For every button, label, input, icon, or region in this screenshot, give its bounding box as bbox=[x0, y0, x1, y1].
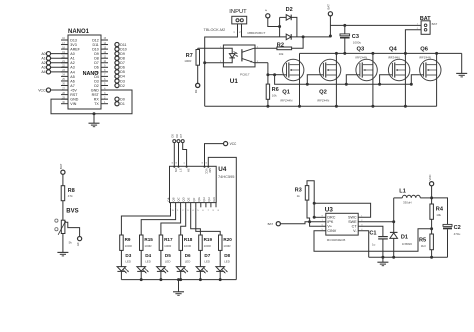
svg-text:R2: R2 bbox=[277, 42, 284, 48]
LED D7 bbox=[199, 250, 201, 266]
NANO1 left pin A3 bbox=[61, 66, 68, 68]
wire Z to D2 bbox=[268, 18, 280, 27]
svg-text:IRFZ44N: IRFZ44N bbox=[388, 55, 400, 59]
wire U4 output bbox=[191, 207, 201, 235]
wire U4 output bbox=[181, 207, 186, 235]
svg-text:QH: QH bbox=[207, 197, 211, 201]
wire U4 output bbox=[196, 207, 220, 235]
NANO1 left pin A0 bbox=[61, 53, 68, 55]
svg-text:D2: D2 bbox=[94, 84, 99, 88]
U4 pin 5 bbox=[195, 203, 197, 208]
inductor L1 330uH bbox=[402, 195, 420, 198]
NANO1 left pin AREF bbox=[61, 48, 68, 50]
svg-text:A4: A4 bbox=[41, 70, 45, 74]
svg-text:SWE: SWE bbox=[348, 220, 357, 224]
svg-text:GND: GND bbox=[70, 98, 78, 102]
resistor R15 100R bbox=[140, 235, 144, 250]
svg-text:LED: LED bbox=[224, 259, 230, 263]
Arduino Nano U-NANO1 bbox=[68, 35, 101, 109]
svg-text:Q1: Q1 bbox=[282, 89, 291, 95]
svg-text:D3: D3 bbox=[120, 79, 125, 83]
svg-text:A2: A2 bbox=[70, 61, 74, 65]
svg-text:ST: ST bbox=[178, 168, 182, 172]
NANO1 right pin D8 bbox=[101, 57, 108, 59]
svg-text:1k: 1k bbox=[297, 194, 301, 198]
wire NANO GND loop bbox=[51, 90, 132, 114]
svg-text:R3: R3 bbox=[295, 188, 302, 194]
resistor R2 10k bbox=[255, 47, 277, 49]
wire R3 top to SWC/DRC bbox=[307, 181, 314, 218]
svg-text:D10: D10 bbox=[92, 48, 99, 52]
NANO1 right pin D2 bbox=[101, 85, 108, 87]
svg-text:VIN: VIN bbox=[70, 102, 76, 106]
NANO1 right pin D12 bbox=[101, 39, 108, 41]
terminal D7 (NANO1 right) bbox=[115, 61, 119, 65]
svg-text:D7: D7 bbox=[179, 134, 183, 138]
svg-text:DS: DS bbox=[174, 168, 178, 172]
U4 pin 8 bbox=[215, 203, 217, 208]
terminal A0 (to NANO1 A0) bbox=[51, 53, 68, 55]
ground LED bbox=[173, 291, 184, 293]
NANO1 right pin D11 bbox=[101, 44, 108, 46]
svg-text:INPUT: INPUT bbox=[229, 9, 247, 15]
resistor R18 100R bbox=[179, 235, 183, 250]
wire to V+ bbox=[310, 222, 326, 227]
wire U4 OE to LED rail bbox=[208, 157, 236, 279]
svg-text:D1: D1 bbox=[401, 234, 408, 240]
wire CINV feedback loop bbox=[314, 229, 432, 252]
NANO1 left pin A2 bbox=[61, 62, 68, 64]
svg-text:5k: 5k bbox=[69, 241, 73, 245]
svg-text:LED: LED bbox=[204, 259, 210, 263]
NANO1 right pin RX bbox=[101, 98, 108, 100]
NANO1 right pin D5 bbox=[101, 71, 108, 73]
NANO1 left pin GND bbox=[61, 98, 68, 100]
svg-text:NANO1: NANO1 bbox=[68, 29, 90, 35]
U4 pin 9 bbox=[210, 203, 212, 208]
NANO1 right pin D9 bbox=[101, 53, 108, 55]
terminal D3 (NANO1 right) bbox=[115, 79, 119, 83]
wire U4 output bbox=[121, 207, 170, 235]
terminal D4 (NANO1 right) bbox=[115, 74, 119, 78]
svg-text:IRFZ44N: IRFZ44N bbox=[355, 55, 367, 59]
svg-text:SH: SH bbox=[186, 168, 190, 172]
svg-text:47k: 47k bbox=[68, 194, 73, 198]
svg-text:D1: D1 bbox=[120, 102, 125, 106]
op-amp U1 PC817 optocoupler bbox=[223, 45, 255, 67]
svg-text:1000u: 1000u bbox=[353, 41, 362, 45]
svg-text:PC817: PC817 bbox=[240, 72, 250, 76]
svg-text:D0: D0 bbox=[120, 97, 125, 101]
svg-text:IRFZ44N: IRFZ44N bbox=[317, 99, 329, 103]
NANO1 left pin D13 bbox=[61, 39, 68, 41]
IC U4 74HC595 bbox=[170, 166, 217, 202]
NANO1 left pin 3V3 bbox=[61, 44, 68, 46]
NANO1 left pin VIN bbox=[61, 103, 68, 105]
svg-text:100R: 100R bbox=[184, 244, 192, 248]
svg-text:LED: LED bbox=[165, 259, 171, 263]
svg-text:100R: 100R bbox=[184, 59, 192, 63]
terminal D0 (NANO1 RX) bbox=[115, 97, 119, 101]
svg-text:74HC595: 74HC595 bbox=[218, 174, 234, 179]
potentiometer BVS 5k bbox=[61, 220, 65, 233]
svg-text:BAT: BAT bbox=[59, 163, 63, 169]
terminal Z bbox=[266, 14, 270, 18]
terminal D3 (opto drive) bbox=[196, 83, 200, 87]
NANO1 left pin A6 bbox=[61, 80, 68, 82]
wire BAT+ rail to BAT1 bbox=[330, 24, 421, 26]
svg-text:LED: LED bbox=[125, 259, 131, 263]
terminal A3 (to NANO1 A3) bbox=[51, 66, 68, 68]
svg-text:A1: A1 bbox=[70, 57, 74, 61]
svg-text:100R: 100R bbox=[125, 244, 133, 248]
svg-text:GND: GND bbox=[91, 88, 99, 92]
U4 pin 15 bbox=[170, 203, 172, 208]
NANO1 right pin RST bbox=[101, 94, 108, 96]
svg-text:D10: D10 bbox=[120, 47, 126, 51]
svg-text:Q3: Q3 bbox=[357, 47, 366, 53]
NANO1 left pin A7 bbox=[61, 85, 68, 87]
terminal D6 (NANO1 right) bbox=[115, 65, 119, 69]
resistor R9 100R bbox=[120, 235, 124, 250]
svg-text:Q4: Q4 bbox=[389, 47, 398, 53]
NANO1 left pin RST bbox=[61, 94, 68, 96]
svg-text:QB: QB bbox=[172, 197, 176, 201]
wire D2 output bbox=[291, 36, 330, 38]
svg-text:A3: A3 bbox=[70, 66, 74, 70]
svg-text:RST: RST bbox=[70, 93, 78, 97]
wire U4 output bbox=[141, 207, 175, 235]
svg-text:VCC: VCC bbox=[428, 174, 432, 180]
wire U1 pin2 to GND bbox=[205, 62, 224, 64]
svg-text:GN: GN bbox=[212, 197, 216, 201]
wire R3 bottom bbox=[307, 200, 310, 222]
capacitor C2 470u bbox=[443, 224, 452, 226]
svg-text:D8: D8 bbox=[224, 253, 230, 258]
svg-text:D8: D8 bbox=[94, 57, 99, 61]
ground BVS bbox=[57, 251, 68, 253]
terminal D11 (NANO1 right) bbox=[115, 42, 119, 46]
svg-text:L1: L1 bbox=[399, 189, 406, 195]
svg-text:MC34063ECB: MC34063ECB bbox=[327, 238, 346, 242]
svg-text:3V3: 3V3 bbox=[70, 43, 76, 47]
resistor R19 100R bbox=[199, 235, 203, 250]
svg-text:SWC: SWC bbox=[348, 216, 357, 220]
svg-text:C2: C2 bbox=[454, 225, 461, 231]
wire VCC to U4 bbox=[205, 144, 224, 167]
svg-text:D8: D8 bbox=[120, 57, 125, 61]
svg-text:D7: D7 bbox=[94, 61, 99, 65]
svg-text:D2: D2 bbox=[286, 7, 293, 13]
capacitor C3 1000u bbox=[343, 24, 346, 27]
capacitor C1 1u bbox=[378, 236, 388, 238]
transistor Q1 IRFZ44N bbox=[283, 59, 304, 80]
svg-text:D3: D3 bbox=[125, 253, 131, 258]
svg-text:D3: D3 bbox=[194, 89, 198, 93]
svg-text:D11: D11 bbox=[120, 43, 126, 47]
svg-text:QA: QA bbox=[167, 197, 171, 201]
terminal D8 (NANO1 right) bbox=[115, 56, 119, 60]
svg-text:IRFZ44N: IRFZ44N bbox=[280, 99, 292, 103]
wire INPUT pin1 to GND rail bbox=[205, 24, 238, 106]
svg-text:R15: R15 bbox=[144, 237, 153, 242]
U4 pin 4 bbox=[190, 203, 192, 208]
svg-text:100R: 100R bbox=[223, 244, 231, 248]
svg-text:RST: RST bbox=[92, 93, 100, 97]
transistor Q3 IRFZ44N bbox=[356, 59, 377, 80]
terminal A4 (to NANO1 A4) bbox=[51, 71, 68, 73]
terminal VCC (to NANO1 +5V) bbox=[51, 89, 68, 91]
svg-text:BAT: BAT bbox=[268, 222, 274, 226]
NANO1 right pin D3 bbox=[101, 80, 108, 82]
svg-text:10k: 10k bbox=[436, 213, 441, 217]
svg-text:IRFZ44N: IRFZ44N bbox=[419, 55, 431, 59]
svg-text:100R: 100R bbox=[204, 244, 212, 248]
wire U4 output bbox=[161, 207, 181, 235]
svg-text:D6: D6 bbox=[185, 253, 191, 258]
LED D5 bbox=[160, 250, 162, 266]
wire LED cathode bbox=[160, 271, 162, 279]
ground (LED rail) bbox=[177, 278, 180, 281]
ground (top right) bbox=[461, 53, 463, 73]
wire gate feed bbox=[345, 83, 348, 86]
svg-text:A4: A4 bbox=[70, 70, 74, 74]
svg-text:LED: LED bbox=[185, 259, 191, 263]
svg-text:D12: D12 bbox=[92, 38, 99, 42]
svg-text:A1: A1 bbox=[41, 57, 45, 61]
svg-text:TX: TX bbox=[94, 102, 99, 106]
svg-text:IPK: IPK bbox=[327, 220, 333, 224]
terminal D10 (NANO1 right) bbox=[115, 47, 119, 51]
svg-text:VCC: VCC bbox=[204, 168, 208, 174]
transistor Q2 IRFZ44N bbox=[319, 59, 340, 80]
svg-text:10k: 10k bbox=[272, 94, 277, 98]
wire U3 ground rail bbox=[369, 256, 448, 258]
wire source rail bbox=[205, 105, 437, 107]
terminal D5 (NANO1 right) bbox=[115, 70, 119, 74]
resistor R3 1k bbox=[305, 186, 309, 201]
svg-text:A0: A0 bbox=[41, 52, 45, 56]
svg-text:D6: D6 bbox=[120, 66, 125, 70]
terminal D2 (NANO1 right) bbox=[115, 83, 119, 87]
svg-text:R4: R4 bbox=[436, 207, 444, 213]
terminal BAT (D2 out) bbox=[329, 16, 331, 37]
terminal D1 (NANO1 TX) bbox=[115, 102, 119, 106]
svg-text:D13: D13 bbox=[70, 38, 77, 42]
svg-text:330uH: 330uH bbox=[403, 200, 412, 204]
wire BVS wiper to A0 terminal bbox=[65, 222, 80, 236]
svg-text:MR: MR bbox=[208, 168, 212, 172]
svg-text:D4: D4 bbox=[145, 253, 151, 258]
terminal A0 (BVS wiper) bbox=[78, 237, 82, 241]
svg-text:C1: C1 bbox=[369, 231, 376, 237]
svg-text:U3: U3 bbox=[325, 207, 334, 214]
svg-text:A0: A0 bbox=[70, 52, 74, 56]
ground symbol NANO bbox=[89, 122, 100, 124]
wire to C2 bbox=[432, 198, 448, 225]
wire V- to ground rail bbox=[358, 231, 369, 258]
svg-text:A0: A0 bbox=[76, 242, 80, 246]
U4 pin 3 bbox=[185, 203, 187, 208]
resistor R7 100R bbox=[198, 47, 224, 49]
svg-text:100R: 100R bbox=[164, 244, 172, 248]
svg-text:TBLOCK-M2: TBLOCK-M2 bbox=[204, 28, 226, 32]
wire INPUT pin2 to D2 anode bbox=[242, 24, 287, 37]
NANO1 left pin A1 bbox=[61, 57, 68, 59]
terminal BAT (BVS top) bbox=[61, 170, 65, 174]
svg-text:R20: R20 bbox=[223, 237, 232, 242]
svg-text:C3: C3 bbox=[352, 34, 359, 40]
transistor Q4 IRFZ44N bbox=[388, 59, 409, 80]
svg-text:Q6: Q6 bbox=[420, 47, 429, 53]
svg-text:AREF: AREF bbox=[70, 48, 80, 52]
svg-text:R18: R18 bbox=[184, 237, 193, 242]
LED D8 bbox=[219, 250, 221, 266]
svg-text:A5: A5 bbox=[70, 75, 74, 79]
diode D1 1N5820 bbox=[390, 231, 398, 233]
wire BAT1 pin2 to drain rail bbox=[405, 30, 421, 54]
IC U3 MC34063 bbox=[326, 213, 358, 235]
svg-text:R9: R9 bbox=[125, 237, 131, 242]
terminal A1 (to NANO1 A1) bbox=[51, 57, 68, 59]
resistor R6 10k bbox=[267, 63, 269, 84]
svg-text:R17: R17 bbox=[164, 237, 173, 242]
svg-text:1N5820: 1N5820 bbox=[402, 242, 413, 246]
svg-text:DRC: DRC bbox=[327, 216, 335, 220]
svg-text:D9: D9 bbox=[120, 52, 125, 56]
NANO1 right pin D10 bbox=[101, 48, 108, 50]
wire drain rail (BAT-) bbox=[300, 52, 462, 54]
terminal D5 (U4 data) bbox=[173, 140, 176, 143]
svg-text:D5: D5 bbox=[94, 70, 99, 74]
NANO1 right pin GND bbox=[101, 89, 108, 91]
svg-text:D4: D4 bbox=[94, 75, 99, 79]
terminal B (U3 input) bbox=[276, 222, 280, 226]
wire LED cathode bbox=[219, 271, 221, 279]
NANO1 right pin D4 bbox=[101, 75, 108, 77]
ground (U3) bbox=[382, 257, 384, 262]
terminal D6 (U4 clock) bbox=[177, 140, 180, 143]
terminal VCC (boost out) bbox=[430, 182, 434, 186]
svg-text:D2: D2 bbox=[120, 84, 125, 88]
svg-text:V+: V+ bbox=[327, 225, 332, 229]
svg-text:R5: R5 bbox=[419, 238, 426, 244]
U1 internal LED bbox=[223, 48, 232, 53]
U4 pin 2 bbox=[180, 203, 182, 208]
resistor R5 3k3 bbox=[430, 234, 434, 250]
wire BVS to ground bbox=[62, 234, 64, 253]
wire CT to C1 bbox=[358, 226, 383, 236]
resistor R4 10k bbox=[431, 198, 433, 204]
ground top right bbox=[456, 72, 467, 74]
svg-text:VCC: VCC bbox=[38, 88, 46, 92]
svg-text:1u: 1u bbox=[372, 243, 376, 247]
NANO1 left pin +5V bbox=[61, 89, 68, 91]
svg-text:BAT: BAT bbox=[432, 22, 438, 26]
LED D3 bbox=[120, 250, 122, 266]
wire to DRC bbox=[314, 216, 326, 218]
LED D6 bbox=[180, 250, 182, 266]
wire gate feed bbox=[378, 83, 381, 86]
svg-text:U4: U4 bbox=[218, 166, 227, 173]
U1 internal phototransistor bbox=[241, 49, 243, 61]
svg-text:CINV: CINV bbox=[327, 229, 336, 233]
svg-text:Q2: Q2 bbox=[319, 89, 327, 95]
svg-text:A6: A6 bbox=[70, 79, 74, 83]
svg-text:D5: D5 bbox=[165, 253, 171, 258]
svg-text:BAT: BAT bbox=[327, 4, 331, 10]
wire B to U3 bbox=[280, 222, 309, 224]
wire gate feed bbox=[410, 83, 413, 86]
svg-text:R19: R19 bbox=[204, 237, 213, 242]
wire gate feed bbox=[306, 83, 309, 86]
svg-text:QF: QF bbox=[192, 197, 196, 201]
svg-text:D6: D6 bbox=[94, 66, 99, 70]
svg-text:10k: 10k bbox=[279, 52, 284, 56]
svg-text:R6: R6 bbox=[272, 87, 279, 93]
svg-text:Z: Z bbox=[264, 9, 268, 11]
svg-text:U1: U1 bbox=[230, 78, 239, 85]
wire MOSFET gate bus bbox=[268, 74, 283, 76]
U4 pin 1 bbox=[175, 203, 177, 208]
resistor R8 47k bbox=[61, 186, 64, 201]
svg-text:D4: D4 bbox=[120, 75, 125, 79]
svg-text:A2: A2 bbox=[41, 61, 45, 65]
svg-text:A3: A3 bbox=[41, 66, 45, 70]
terminal D7 (U4 latch) bbox=[181, 140, 184, 143]
terminal A2 (to NANO1 A2) bbox=[51, 62, 68, 64]
wire LED cathode rail bbox=[121, 279, 236, 281]
NANO1 left pin A5 bbox=[61, 75, 68, 77]
wire terminals to U4 bbox=[173, 143, 175, 167]
wire LED cathode bbox=[180, 271, 182, 279]
svg-text:QC: QC bbox=[177, 197, 181, 201]
wire LED cathode bbox=[140, 271, 142, 279]
svg-text:3k3: 3k3 bbox=[421, 244, 426, 248]
svg-text:QH: QH bbox=[202, 197, 206, 201]
svg-text:RX: RX bbox=[94, 98, 100, 102]
svg-text:D11: D11 bbox=[92, 43, 98, 47]
ground U3 bbox=[377, 261, 388, 263]
svg-text:D7: D7 bbox=[204, 253, 210, 258]
wire SWE node bbox=[358, 221, 394, 223]
ground (NANO) bbox=[93, 112, 96, 115]
svg-text:BVS: BVS bbox=[66, 208, 78, 214]
LED D4 bbox=[140, 250, 142, 266]
NANO1 right pin TX bbox=[101, 103, 108, 105]
svg-text:D7: D7 bbox=[120, 61, 125, 65]
svg-text:D9: D9 bbox=[94, 52, 99, 56]
U4 pin 7 bbox=[205, 203, 207, 208]
NANO1 right pin D7 bbox=[101, 62, 108, 64]
svg-text:470u: 470u bbox=[454, 232, 461, 236]
terminal D9 (NANO1 right) bbox=[115, 52, 119, 56]
wire LED cathode bbox=[199, 271, 201, 279]
svg-text:QD: QD bbox=[182, 197, 186, 201]
wire to IPK bbox=[310, 221, 326, 223]
svg-text:+5V: +5V bbox=[70, 88, 77, 92]
svg-text:R8: R8 bbox=[68, 188, 75, 194]
svg-text:A7: A7 bbox=[70, 84, 74, 88]
svg-text:D5: D5 bbox=[120, 70, 125, 74]
svg-text:QG: QG bbox=[197, 197, 201, 201]
terminal VCC (U4) bbox=[224, 142, 228, 146]
NANO1 right pin D6 bbox=[101, 66, 108, 68]
svg-text:D3: D3 bbox=[94, 79, 99, 83]
NANO1 left pin A4 bbox=[61, 71, 68, 73]
svg-text:100R: 100R bbox=[144, 244, 152, 248]
transistor Q6 IRFZ44N bbox=[420, 59, 441, 80]
